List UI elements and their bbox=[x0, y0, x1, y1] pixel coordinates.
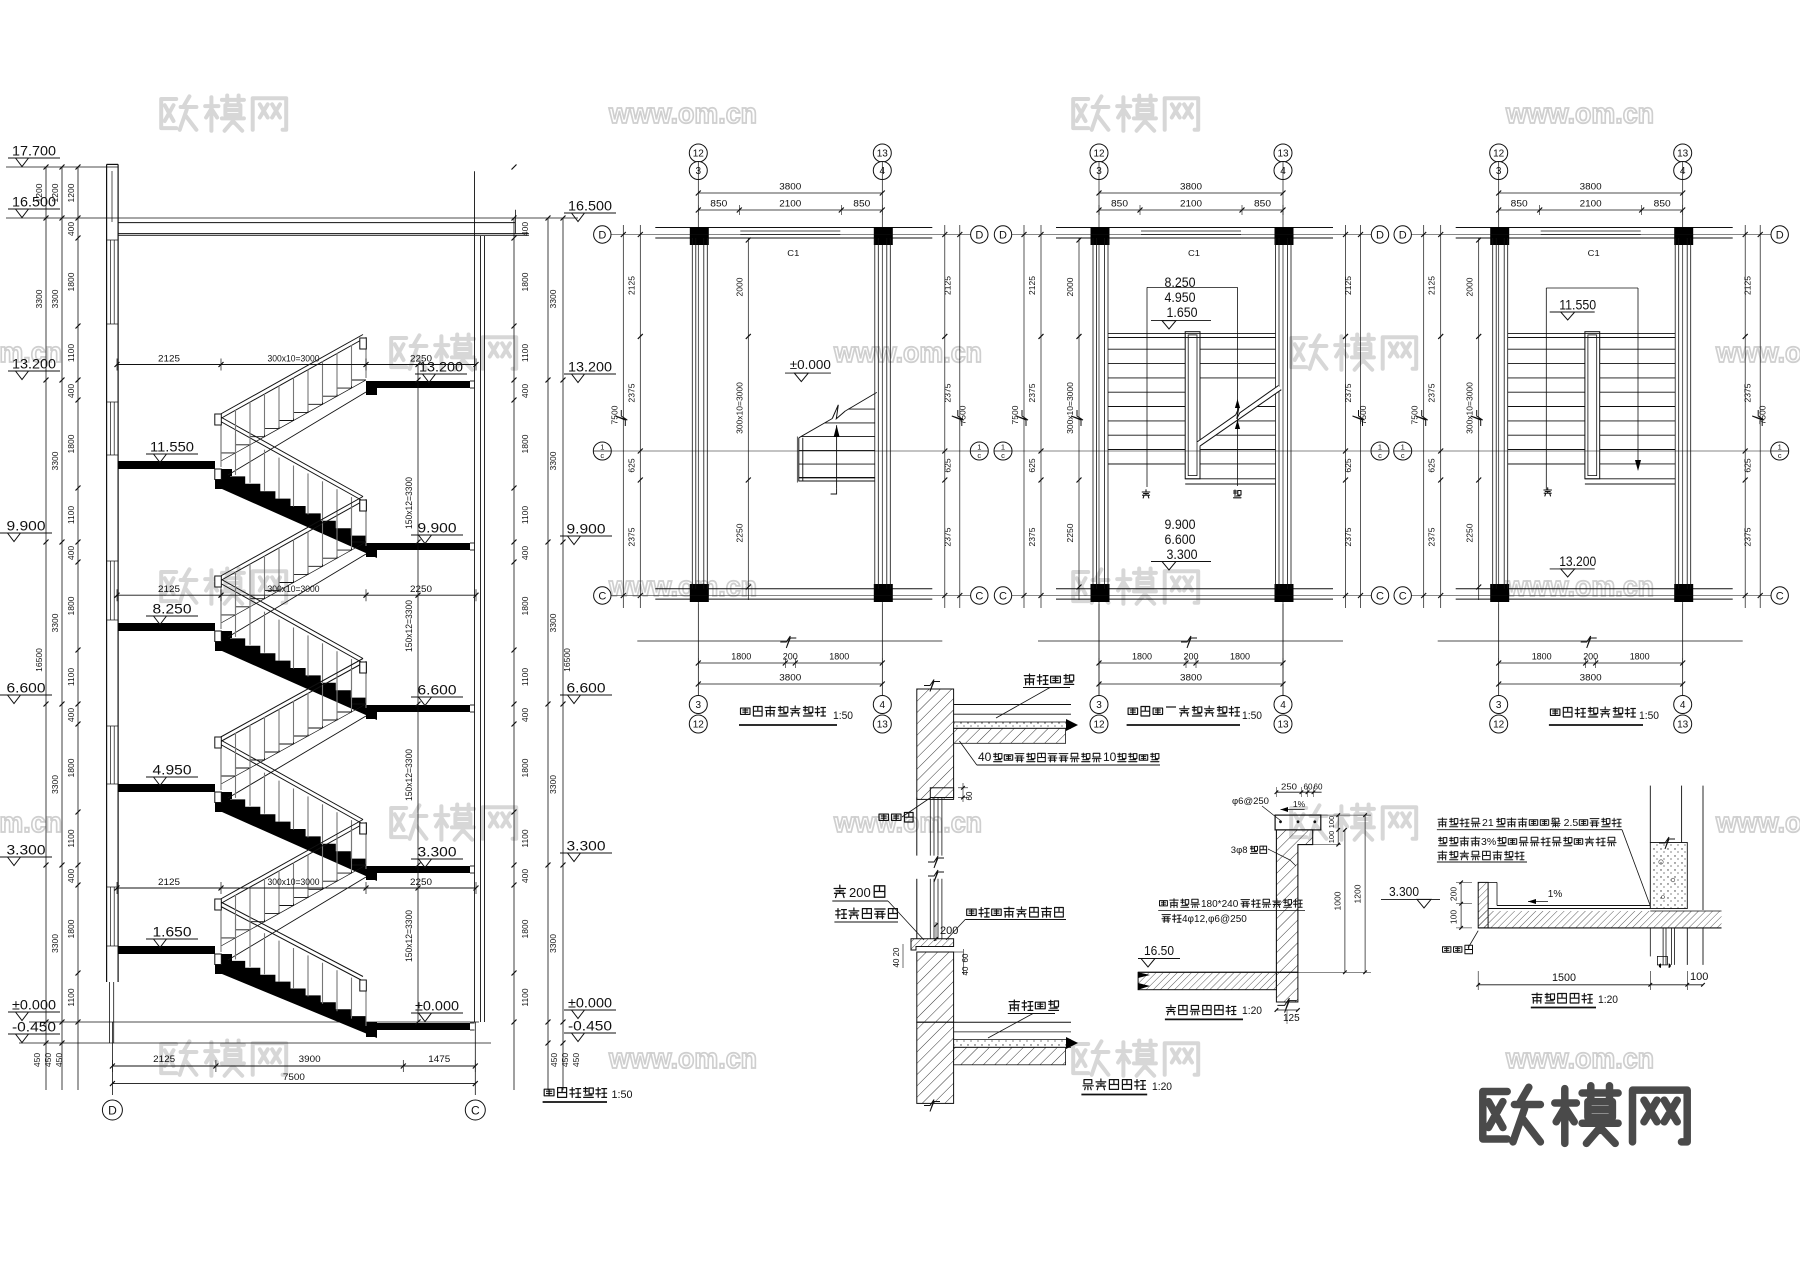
svg-text:13: 13 bbox=[877, 149, 889, 160]
svg-text:125: 125 bbox=[1283, 1013, 1300, 1024]
svg-text:1475: 1475 bbox=[428, 1054, 450, 1064]
svg-text:3.300: 3.300 bbox=[7, 843, 46, 858]
plan: top dims 3800 / 850 2100 850 bbox=[1499, 192, 1683, 194]
railings bbox=[218, 901, 363, 977]
plan: middle divider double rect bbox=[1185, 332, 1200, 479]
svg-text:www.om.cn: www.om.cn bbox=[1715, 807, 1800, 839]
svg-text:9.900: 9.900 bbox=[1165, 517, 1196, 532]
svg-text:1%: 1% bbox=[1293, 799, 1306, 809]
svg-text:1200: 1200 bbox=[66, 183, 76, 202]
svg-text:C: C bbox=[1776, 591, 1784, 603]
svg-text:±0.000: ±0.000 bbox=[415, 999, 459, 1014]
svg-text:D: D bbox=[598, 230, 606, 242]
svg-text:1800: 1800 bbox=[66, 272, 76, 291]
svg-text:1200: 1200 bbox=[50, 183, 60, 202]
svg-text:40: 40 bbox=[961, 966, 970, 975]
plan: right dim chains bbox=[1345, 225, 1347, 608]
svg-text:2125: 2125 bbox=[1427, 276, 1437, 295]
wall detail: tian 200 hao labels bbox=[834, 885, 845, 897]
svg-text:C: C bbox=[975, 591, 983, 603]
svg-text:13: 13 bbox=[1677, 720, 1689, 731]
svg-text:2375: 2375 bbox=[1427, 383, 1437, 402]
svg-text:2000: 2000 bbox=[1065, 277, 1075, 296]
outline flight 946->865 bbox=[221, 865, 366, 946]
svg-text:1800: 1800 bbox=[520, 919, 530, 938]
svg-text:450: 450 bbox=[549, 1053, 559, 1067]
parapet detail: roof slab bbox=[1138, 972, 1276, 989]
canopy detail: bottom dims 1500 100 bbox=[1477, 971, 1479, 990]
svg-text:9.900: 9.900 bbox=[567, 522, 606, 537]
plan: C wall bbox=[655, 588, 932, 590]
svg-text:300x10=3000: 300x10=3000 bbox=[734, 382, 744, 434]
svg-text:13: 13 bbox=[877, 720, 889, 731]
svg-text:D: D bbox=[108, 1103, 117, 1117]
svg-text:2250: 2250 bbox=[410, 354, 432, 364]
svg-text:400: 400 bbox=[66, 869, 76, 883]
plan: top dims 3800 / 850 2100 850 bbox=[1099, 192, 1283, 194]
svg-text:D: D bbox=[1376, 230, 1384, 242]
svg-text:C: C bbox=[999, 591, 1007, 603]
section: landing slabs left side bbox=[118, 461, 215, 469]
section: left wall with window bands bbox=[106, 164, 108, 982]
svg-text:625: 625 bbox=[1743, 458, 1753, 472]
svg-text:40: 40 bbox=[978, 750, 992, 764]
plan variant 1: grid circles top bbox=[689, 144, 707, 162]
section: horizontal dim rows bbox=[117, 364, 476, 366]
plan1: level label bbox=[785, 372, 831, 374]
plan: bottom dims 1800 200 1800 / 3800 bbox=[1098, 604, 1100, 695]
canopy detail: upstand lip bbox=[1478, 882, 1488, 928]
svg-text:4: 4 bbox=[1280, 700, 1286, 711]
svg-text:2125: 2125 bbox=[158, 584, 180, 594]
plan: bottom cut line bbox=[1038, 640, 1343, 642]
svg-text:1100: 1100 bbox=[66, 668, 76, 687]
plan1: walk line with arrow bbox=[836, 425, 838, 488]
svg-text:6.600: 6.600 bbox=[418, 683, 457, 698]
canopy detail: left dims 200 100 bbox=[1460, 882, 1462, 928]
svg-text:450: 450 bbox=[32, 1053, 42, 1067]
svg-text:3300: 3300 bbox=[50, 775, 60, 794]
outline flight 623->542 bbox=[221, 542, 366, 623]
svg-text:3: 3 bbox=[1496, 700, 1502, 711]
wall detail: label di zhuan lou mian lower bbox=[1009, 1000, 1058, 1011]
svg-text:1:50: 1:50 bbox=[612, 1089, 633, 1101]
svg-text:3300: 3300 bbox=[50, 289, 60, 308]
plan variant 3: grid circles top bbox=[1490, 144, 1508, 162]
svg-text:12: 12 bbox=[1093, 720, 1105, 731]
svg-text:12: 12 bbox=[693, 720, 705, 731]
svg-text:3300: 3300 bbox=[50, 934, 60, 953]
svg-text:C1: C1 bbox=[1188, 248, 1200, 258]
svg-text:3800: 3800 bbox=[1580, 182, 1602, 192]
svg-text:4.950: 4.950 bbox=[1165, 290, 1196, 305]
svg-text:3.300: 3.300 bbox=[418, 845, 457, 860]
svg-text:13.200: 13.200 bbox=[12, 357, 56, 372]
svg-text:7500: 7500 bbox=[609, 405, 619, 424]
svg-text:1100: 1100 bbox=[520, 506, 530, 525]
svg-text:c: c bbox=[600, 451, 604, 460]
plan: side grid bubbles bbox=[1394, 226, 1411, 243]
svg-text:3800: 3800 bbox=[779, 182, 801, 192]
plan: stair run dim chain bbox=[747, 238, 749, 600]
svg-text:c: c bbox=[1378, 451, 1382, 460]
svg-text:11.550: 11.550 bbox=[150, 440, 194, 455]
svg-text:c: c bbox=[1778, 451, 1782, 460]
svg-text:1800: 1800 bbox=[1630, 652, 1650, 662]
svg-text:12: 12 bbox=[693, 149, 705, 160]
svg-text:www.om.cn: www.om.cn bbox=[833, 807, 982, 839]
svg-text:2375: 2375 bbox=[942, 527, 952, 546]
svg-text:450: 450 bbox=[43, 1053, 53, 1067]
svg-text:21: 21 bbox=[1482, 817, 1494, 829]
svg-text:300x10=3000: 300x10=3000 bbox=[1465, 382, 1475, 434]
svg-text:4: 4 bbox=[880, 700, 886, 711]
svg-text:2125: 2125 bbox=[153, 1054, 175, 1064]
svg-text:850: 850 bbox=[710, 199, 727, 209]
svg-text:1200: 1200 bbox=[34, 183, 44, 202]
svg-text:3800: 3800 bbox=[779, 673, 801, 683]
plan: bottom landing edge bbox=[1585, 478, 1675, 480]
svg-text:1500: 1500 bbox=[1552, 972, 1576, 984]
svg-text:±0.000: ±0.000 bbox=[12, 998, 56, 1013]
parapet detail: parapet wall hatched bbox=[1276, 830, 1312, 972]
svg-text:φ6@250: φ6@250 bbox=[1232, 796, 1269, 807]
plan: stair run dim chain bbox=[1478, 238, 1480, 600]
canopy detail: slab body bbox=[1497, 905, 1650, 907]
svg-text:850: 850 bbox=[1511, 199, 1528, 209]
svg-text:200: 200 bbox=[783, 652, 798, 662]
svg-text:150x12=3300: 150x12=3300 bbox=[404, 600, 414, 652]
svg-text:9.900: 9.900 bbox=[418, 521, 457, 536]
svg-text:11.550: 11.550 bbox=[1559, 298, 1596, 313]
svg-text:200: 200 bbox=[1583, 652, 1598, 662]
svg-text:3300: 3300 bbox=[548, 775, 558, 794]
parapet detail: 125 dim bbox=[1276, 1009, 1298, 1011]
plan3: right-half treads full bbox=[1600, 348, 1676, 350]
svg-text:2375: 2375 bbox=[626, 383, 636, 402]
plan: bottom grid circles bbox=[1090, 696, 1108, 714]
svg-text:2125: 2125 bbox=[158, 877, 180, 887]
svg-text:1800: 1800 bbox=[829, 652, 849, 662]
section: right margin elevation labels bbox=[564, 212, 616, 214]
svg-text:300x10=3000: 300x10=3000 bbox=[1065, 382, 1075, 434]
plan: side grid bubbles bbox=[594, 226, 611, 243]
svg-text:20: 20 bbox=[892, 947, 901, 956]
wall detail: upper floor slab bbox=[954, 704, 1071, 706]
plan: columns bbox=[1091, 227, 1110, 245]
plan: C wall bbox=[1056, 588, 1333, 590]
svg-text:3%: 3% bbox=[1481, 836, 1496, 848]
section: grid bubbles D C bbox=[102, 1100, 122, 1120]
svg-text:3800: 3800 bbox=[1180, 182, 1202, 192]
section: bottom dimensions bbox=[111, 1022, 113, 1095]
svg-text:2250: 2250 bbox=[734, 523, 744, 542]
svg-text:100: 100 bbox=[1327, 831, 1336, 844]
svg-text:250: 250 bbox=[1281, 782, 1297, 792]
plan: D wall with window C1 bbox=[655, 227, 932, 229]
svg-text:2125: 2125 bbox=[1027, 276, 1037, 295]
svg-text:c: c bbox=[1401, 451, 1405, 460]
svg-text:6.600: 6.600 bbox=[7, 681, 46, 696]
svg-text:12: 12 bbox=[1493, 720, 1505, 731]
svg-text:400: 400 bbox=[520, 708, 530, 722]
svg-text:400: 400 bbox=[66, 708, 76, 722]
svg-text:www.om.cn: www.om.cn bbox=[1715, 337, 1800, 369]
plan3: callout frame bbox=[1546, 287, 1638, 289]
svg-text:4.950: 4.950 bbox=[153, 763, 192, 778]
wall detail: caption bbox=[1083, 1079, 1145, 1090]
svg-text:625: 625 bbox=[1343, 458, 1353, 472]
svg-text:400: 400 bbox=[520, 384, 530, 398]
svg-text:1800: 1800 bbox=[520, 434, 530, 453]
svg-text:www.om.cn: www.om.cn bbox=[608, 1043, 757, 1075]
svg-text:850: 850 bbox=[1254, 199, 1271, 209]
svg-text:1800: 1800 bbox=[731, 652, 751, 662]
section: caption bbox=[544, 1087, 606, 1097]
svg-text:1800: 1800 bbox=[66, 596, 76, 615]
plan3: down arrow bbox=[1635, 460, 1641, 471]
section: left margin elevation labels bbox=[8, 157, 60, 159]
svg-text:2125: 2125 bbox=[1743, 276, 1753, 295]
svg-text:13: 13 bbox=[1677, 149, 1689, 160]
svg-text:1:50: 1:50 bbox=[1639, 710, 1659, 722]
svg-text:3300: 3300 bbox=[34, 289, 44, 308]
svg-text:2375: 2375 bbox=[1343, 527, 1353, 546]
svg-text:450: 450 bbox=[571, 1053, 581, 1067]
svg-text:400: 400 bbox=[66, 384, 76, 398]
svg-text:2100: 2100 bbox=[779, 199, 801, 209]
plan: side walls bbox=[691, 238, 693, 589]
svg-text:150x12=3300: 150x12=3300 bbox=[404, 910, 414, 962]
plan: bottom cut line bbox=[637, 640, 942, 642]
plan: stair run dim chain bbox=[1078, 238, 1080, 600]
svg-text:1100: 1100 bbox=[66, 829, 76, 848]
plan1: ground floor stair, half flight + break bbox=[798, 438, 800, 482]
plan: vertical grid lines bbox=[1098, 162, 1100, 695]
black cut flight 623->704 bbox=[215, 631, 377, 720]
plan: middle divider double rect bbox=[1585, 332, 1600, 479]
svg-text:60: 60 bbox=[965, 791, 974, 800]
black cut flight 784->865 bbox=[215, 792, 377, 881]
svg-text:6.600: 6.600 bbox=[1165, 532, 1196, 547]
svg-text:3300: 3300 bbox=[548, 613, 558, 632]
svg-text:200: 200 bbox=[849, 885, 871, 900]
svg-text:3300: 3300 bbox=[548, 451, 558, 470]
svg-text:625: 625 bbox=[1027, 458, 1037, 472]
svg-text:2250: 2250 bbox=[410, 584, 432, 594]
svg-text:www.om.cn: www.om.cn bbox=[0, 807, 62, 839]
svg-text:1200: 1200 bbox=[1353, 884, 1363, 903]
svg-text:12: 12 bbox=[1093, 149, 1105, 160]
svg-text:2375: 2375 bbox=[1027, 383, 1037, 402]
svg-text:D: D bbox=[999, 230, 1007, 242]
wall detail: di shui xian label bbox=[879, 813, 913, 823]
svg-text:1000: 1000 bbox=[1333, 891, 1343, 910]
svg-text:1100: 1100 bbox=[520, 829, 530, 848]
plan: columns bbox=[690, 227, 709, 245]
watermarks www.om.cn / logo tiles bbox=[161, 96, 286, 131]
svg-text:6.600: 6.600 bbox=[567, 681, 606, 696]
svg-text:3: 3 bbox=[696, 700, 702, 711]
svg-text:-0.450: -0.450 bbox=[12, 1020, 56, 1035]
svg-text:3300: 3300 bbox=[50, 451, 60, 470]
plan: bottom landing edge bbox=[1185, 478, 1275, 480]
plan: grid lines D 1/c C horizontals bbox=[610, 234, 971, 236]
svg-text:2125: 2125 bbox=[626, 276, 636, 295]
svg-text:www.om.cn: www.om.cn bbox=[1505, 571, 1654, 603]
plan: side walls bbox=[1492, 238, 1494, 589]
svg-text:7500: 7500 bbox=[1410, 405, 1420, 424]
plan: left dim chains bbox=[1040, 225, 1042, 608]
svg-text:200: 200 bbox=[1449, 887, 1459, 901]
svg-text:-0.450: -0.450 bbox=[568, 1019, 612, 1034]
svg-text:13.200: 13.200 bbox=[1559, 554, 1596, 569]
svg-text:1800: 1800 bbox=[1132, 652, 1152, 662]
plan: right dim chains bbox=[944, 225, 946, 608]
plan variant 2: grid circles top bbox=[1090, 144, 1108, 162]
svg-text:2125: 2125 bbox=[1343, 276, 1353, 295]
svg-text:450: 450 bbox=[560, 1053, 570, 1067]
svg-text:1.650: 1.650 bbox=[1167, 305, 1198, 320]
svg-text:3300: 3300 bbox=[548, 289, 558, 308]
svg-text:1800: 1800 bbox=[66, 434, 76, 453]
svg-text:3φ8: 3φ8 bbox=[1231, 845, 1248, 856]
svg-text:1800: 1800 bbox=[66, 758, 76, 777]
svg-text:1.650: 1.650 bbox=[153, 925, 192, 940]
plan2: callout frame + texts bbox=[1147, 286, 1238, 288]
wall detail: yuzhi sill label bbox=[967, 907, 1064, 917]
wall detail: upper wall bbox=[917, 689, 954, 799]
canopy detail: caption bbox=[1532, 993, 1592, 1003]
outline flight 461->380 bbox=[221, 380, 366, 461]
svg-text:16.500: 16.500 bbox=[568, 199, 612, 214]
svg-text:40: 40 bbox=[892, 958, 901, 967]
section: vertical dim line 150x12 bbox=[417, 365, 419, 1023]
svg-text:16500: 16500 bbox=[562, 648, 572, 672]
section: left dimension chains bbox=[45, 167, 47, 1090]
section: ground line bbox=[366, 1022, 377, 1037]
parapet detail: cap block bbox=[1275, 815, 1321, 830]
plan2: break band bbox=[1197, 386, 1281, 447]
svg-text:60: 60 bbox=[1314, 782, 1323, 792]
svg-text:2375: 2375 bbox=[1343, 383, 1353, 402]
section: roof slab 16.500 bbox=[118, 222, 515, 224]
wall detail: window upper segment bbox=[929, 798, 931, 856]
canopy detail: wall above bbox=[1649, 786, 1651, 843]
svg-text:7500: 7500 bbox=[283, 1072, 305, 1082]
svg-text:2100: 2100 bbox=[1180, 199, 1202, 209]
svg-text:9.900: 9.900 bbox=[7, 519, 46, 534]
plan: side walls bbox=[1092, 238, 1094, 589]
svg-text:150x12=3300: 150x12=3300 bbox=[404, 477, 414, 529]
plan2: up arrows on walk line bbox=[1235, 399, 1240, 408]
section: mid elevation labels near right wall bbox=[415, 373, 467, 375]
svg-text:C1: C1 bbox=[787, 248, 799, 258]
svg-text:16500: 16500 bbox=[34, 648, 44, 672]
svg-text:8.250: 8.250 bbox=[1165, 275, 1196, 290]
wall detail: lower wall bbox=[917, 952, 954, 1022]
plan: top dims 3800 / 850 2100 850 bbox=[698, 192, 882, 194]
plan: bottom dims 1800 200 1800 / 3800 bbox=[1498, 604, 1500, 695]
parapet detail: cap dims 250 60 60 bbox=[1276, 791, 1321, 793]
outline flight 784->704 bbox=[221, 704, 366, 784]
parapet detail: left labels bbox=[1160, 899, 1200, 908]
big logo om.cn bottom right bbox=[1483, 1086, 1687, 1144]
plan2/3: full stair treads bbox=[1108, 332, 1276, 334]
svg-text:2375: 2375 bbox=[1427, 527, 1437, 546]
svg-text:17.700: 17.700 bbox=[12, 144, 56, 159]
svg-text:c: c bbox=[977, 451, 981, 460]
plan2: xia shang labels bbox=[1142, 490, 1150, 498]
svg-text:2000: 2000 bbox=[1465, 277, 1475, 296]
plan: vertical grid lines bbox=[1498, 162, 1500, 695]
canopy detail: top annotation texts bbox=[1438, 818, 1480, 827]
plan: D wall with window C1 bbox=[1056, 227, 1333, 229]
svg-text:400: 400 bbox=[520, 869, 530, 883]
svg-text:1: 2.5: 1: 2.5 bbox=[1552, 817, 1578, 829]
svg-text:450: 450 bbox=[54, 1053, 64, 1067]
section: right wall grid C bbox=[474, 171, 476, 1022]
plan: bottom grid circles bbox=[1490, 696, 1508, 714]
svg-text:1800: 1800 bbox=[520, 272, 530, 291]
canopy detail: door frame below bbox=[1662, 928, 1664, 965]
svg-text:2375: 2375 bbox=[1743, 527, 1753, 546]
svg-text:C: C bbox=[1399, 591, 1407, 603]
svg-text:www.om.cn: www.om.cn bbox=[608, 98, 757, 130]
svg-text:2125: 2125 bbox=[158, 354, 180, 364]
plan2: right-half treads cut by break band bbox=[1200, 348, 1276, 350]
railings bbox=[218, 578, 363, 659]
svg-text:300x10=3000: 300x10=3000 bbox=[268, 354, 320, 364]
svg-text:±0.000: ±0.000 bbox=[790, 357, 831, 372]
svg-text:1800: 1800 bbox=[1532, 652, 1552, 662]
section: right dimension chains bbox=[513, 218, 515, 1090]
svg-text:1100: 1100 bbox=[66, 344, 76, 363]
svg-text:3300: 3300 bbox=[50, 613, 60, 632]
svg-text:1800: 1800 bbox=[66, 919, 76, 938]
canopy detail: di shui xian label bbox=[1443, 945, 1473, 953]
svg-text:200: 200 bbox=[1184, 652, 1199, 662]
plan: right dim chains bbox=[1744, 225, 1746, 608]
svg-text:D: D bbox=[1776, 230, 1784, 242]
svg-text:625: 625 bbox=[626, 458, 636, 472]
section: floor slabs right side bbox=[366, 381, 470, 388]
svg-text:13: 13 bbox=[1277, 149, 1289, 160]
svg-text:3.300: 3.300 bbox=[1167, 547, 1198, 562]
plan: columns bbox=[1490, 227, 1509, 245]
svg-text:2250: 2250 bbox=[1065, 523, 1075, 542]
wall detail: lintel + 60 dim bbox=[930, 788, 953, 798]
svg-text:1100: 1100 bbox=[520, 988, 530, 1007]
svg-text:c: c bbox=[1001, 451, 1005, 460]
svg-text:3.300: 3.300 bbox=[567, 839, 606, 854]
plan: grid lines D 1/c C horizontals bbox=[1411, 234, 1772, 236]
svg-text:2375: 2375 bbox=[1743, 383, 1753, 402]
svg-text:1:50: 1:50 bbox=[833, 710, 853, 722]
svg-text:www.om.cn: www.om.cn bbox=[1505, 1043, 1654, 1075]
wall detail: label di zhuan lou mian upper bbox=[1024, 674, 1073, 685]
svg-text:850: 850 bbox=[853, 199, 870, 209]
svg-text:180*240: 180*240 bbox=[1201, 899, 1239, 910]
svg-text:2100: 2100 bbox=[1580, 199, 1602, 209]
svg-text:2250: 2250 bbox=[410, 877, 432, 887]
svg-text:3.300: 3.300 bbox=[1389, 884, 1419, 899]
svg-text:8.250: 8.250 bbox=[153, 602, 192, 617]
svg-text:100: 100 bbox=[1327, 816, 1336, 829]
svg-text:850: 850 bbox=[1654, 199, 1671, 209]
plan: D wall with window C1 bbox=[1456, 227, 1733, 229]
svg-text:1%: 1% bbox=[1548, 889, 1563, 900]
